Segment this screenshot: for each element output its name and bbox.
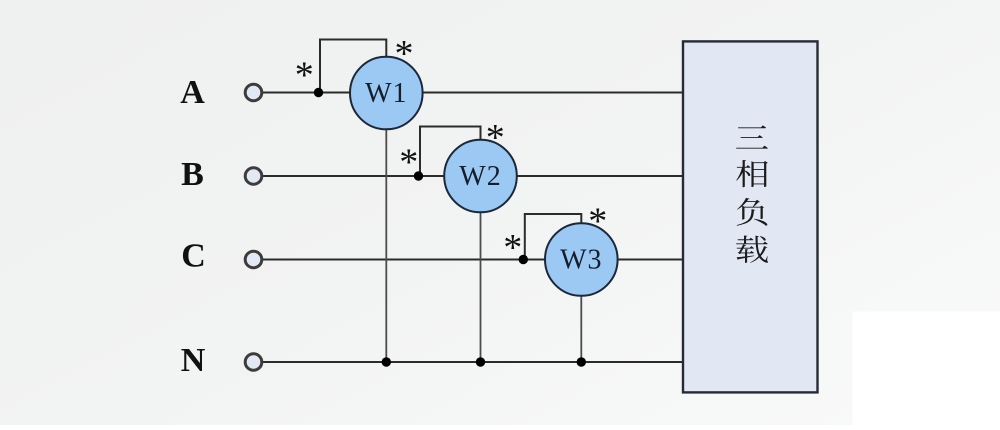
load label char 三 — [736, 125, 768, 148]
svg-text:*: * — [503, 227, 522, 269]
terminal B — [245, 168, 262, 185]
load label char 相 — [736, 160, 768, 187]
wire voltage leg W2 — [480, 213, 482, 363]
svg-text:W3: W3 — [560, 245, 602, 276]
svg-text:W2: W2 — [459, 161, 501, 192]
load label char 负 — [737, 198, 768, 226]
svg-text:*: * — [399, 142, 418, 184]
junction B-W2 — [414, 171, 423, 180]
wattmeter W2 — [444, 140, 517, 213]
wire phase A — [262, 92, 683, 94]
terminal C — [245, 251, 262, 268]
terminal N — [245, 354, 262, 371]
svg-text:*: * — [395, 33, 414, 75]
svg-text:C: C — [181, 238, 206, 275]
wattmeter W3 — [545, 223, 618, 296]
load label char 载 — [736, 236, 768, 263]
wire voltage leg W1 — [385, 129, 387, 362]
svg-text:*: * — [486, 117, 505, 159]
wire phase C — [262, 259, 683, 261]
wire neutral N — [262, 361, 683, 363]
svg-text:*: * — [588, 200, 607, 242]
junction N-W2 — [476, 357, 485, 366]
wattmeter W1 — [350, 57, 423, 130]
wire voltage leg W3 — [580, 296, 582, 362]
junction A-W1 — [314, 88, 323, 97]
terminal A — [245, 84, 262, 101]
wire phase B — [262, 175, 683, 177]
load box (three-phase load) — [683, 41, 818, 392]
wire current loop W2 — [420, 127, 481, 177]
wire current loop W1 — [320, 40, 386, 94]
svg-text:W1: W1 — [365, 78, 407, 109]
svg-text:*: * — [295, 55, 314, 97]
wire current loop W3 — [525, 214, 582, 260]
junction N-W3 — [577, 357, 586, 366]
junction C-W3 — [519, 255, 528, 264]
junction N-W1 — [382, 357, 391, 366]
svg-text:B: B — [181, 156, 204, 193]
svg-text:A: A — [180, 74, 205, 111]
svg-text:N: N — [181, 342, 206, 379]
